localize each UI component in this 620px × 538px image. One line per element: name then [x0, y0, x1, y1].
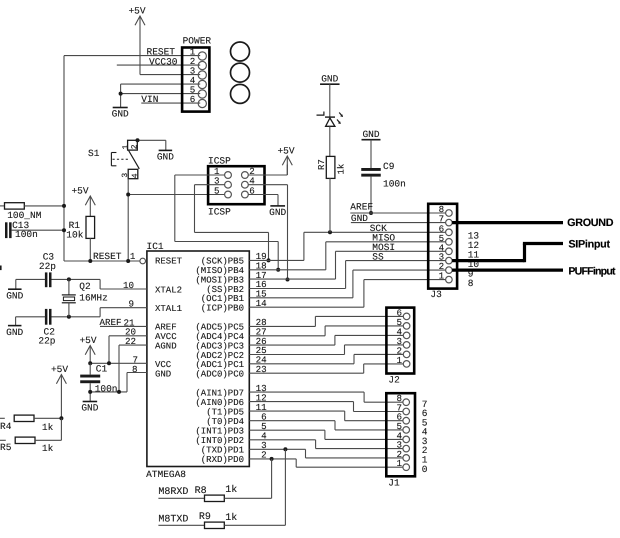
wire IC pin 27 to J2 pin 5 [249, 335, 325, 337]
junction MISO at IC pin18 [276, 268, 280, 272]
wire RESET net: POWER pin1 to left rail [64, 55, 200, 57]
IC IC1 ATMEGA8 box [147, 251, 249, 467]
svg-text:+5V: +5V [79, 335, 96, 346]
switch S1 top contact box [128, 140, 138, 150]
wire IC pin 2 to J1 pin 1 [249, 458, 296, 460]
junction R4/+5V [59, 416, 63, 420]
svg-text:(T1)PD5: (T1)PD5 [206, 407, 244, 417]
svg-text:M8RXD: M8RXD [158, 487, 188, 498]
wire 100_NM to RESET rail [24, 205, 64, 207]
svg-text:8: 8 [132, 364, 138, 375]
svg-text:GND: GND [269, 207, 286, 218]
wire SIPinput (thick) [452, 259, 524, 262]
mounting hole 3 [231, 84, 250, 103]
connector J2 box [386, 308, 414, 374]
svg-text:1k: 1k [42, 422, 54, 433]
wire R9 riser [284, 449, 286, 525]
ground symbol (S1) [159, 149, 173, 151]
svg-text:8: 8 [468, 278, 474, 289]
svg-text:VCC30: VCC30 [149, 56, 178, 67]
S1 bottom contact box [128, 169, 138, 178]
svg-text:1: 1 [439, 271, 445, 282]
junction S1/ICSP5 [126, 193, 130, 197]
resistor R1 body [86, 216, 95, 238]
connector J1 box [386, 393, 415, 476]
junction SCK at IC pin19 [267, 258, 271, 262]
wire IC pin18 to MISO run [249, 269, 325, 271]
junction R1/RESET [88, 259, 92, 263]
wire +5V to POWER pin 3 [140, 74, 200, 76]
wire IC pin 28 to J2 pin 6 [249, 325, 315, 327]
wire IC pin 24 to J2 pin 2 [249, 363, 354, 365]
resistor R9 body [205, 522, 225, 528]
LED light arrows [339, 113, 342, 117]
svg-text:1k: 1k [225, 512, 237, 524]
ground symbol (C1) [83, 401, 98, 403]
svg-text:PUFFinput: PUFFinput [568, 265, 616, 277]
ground symbol (POWER) [113, 107, 128, 109]
svg-text:ICSP: ICSP [208, 155, 231, 166]
resistor R4 left lead [0, 417, 5, 419]
wire GND to LED [329, 84, 331, 117]
svg-text:ATMEGA8: ATMEGA8 [146, 469, 186, 480]
junction S1 pin2 [136, 138, 140, 142]
wire POWER pin4 to GND [121, 83, 201, 85]
resistor R7 body [326, 156, 335, 178]
wire VCC30 to POWER pin2 [117, 64, 200, 66]
wire GND (pin8) row [127, 372, 147, 374]
wire GND label to J3 pin7 [351, 222, 446, 224]
svg-text:1k: 1k [42, 443, 54, 454]
svg-text:R7: R7 [317, 159, 327, 170]
wire ICSP pin1 (MISO) [175, 174, 225, 176]
ground symbol (C9, inverted) [362, 139, 381, 141]
svg-text:1: 1 [130, 251, 136, 262]
S1 lever [129, 151, 140, 169]
svg-text:(RXD)PD0: (RXD)PD0 [201, 455, 244, 465]
svg-text:(ICP)PB0: (ICP)PB0 [201, 304, 244, 314]
wire VIN to POWER pin6 [141, 102, 200, 104]
wire S1 pin2 to GND [138, 139, 166, 141]
svg-text:J3: J3 [430, 289, 442, 300]
wire R7 to SCK [329, 178, 331, 232]
svg-text:GND: GND [6, 327, 23, 338]
crystal Q2 [68, 279, 70, 295]
svg-text:GND: GND [362, 129, 379, 140]
wire XTAL2 (pin10) [100, 288, 147, 290]
wire POWER pin5 to GND rail [121, 93, 201, 95]
svg-text:RESET: RESET [93, 251, 122, 262]
svg-text:XTAL1: XTAL1 [155, 304, 182, 314]
junction C13/RESET rail [62, 228, 66, 232]
wire IC pin14 to J3 pin1 [249, 306, 364, 308]
svg-text:RESET: RESET [155, 257, 183, 267]
wire M8TXD to R9 [158, 524, 204, 526]
wire IC pin 25 to J2 pin 3 [249, 354, 344, 356]
svg-text:IC1: IC1 [147, 241, 164, 252]
svg-text:(ADC0)PC0: (ADC0)PC0 [195, 370, 244, 380]
wire R8 to riser [224, 497, 271, 499]
junction R7/SCK [328, 230, 332, 234]
svg-text:(INT0)PD2: (INT0)PD2 [195, 436, 244, 446]
wire VCC (pin7) row [90, 362, 147, 364]
junction +5V/C1 top [88, 361, 92, 365]
resistor R5 body [15, 437, 35, 443]
svg-text:1: 1 [121, 145, 130, 150]
svg-text:GND: GND [112, 109, 129, 120]
capacitor C9 plates [361, 168, 381, 171]
wire AGND (pin22) riser [119, 344, 147, 346]
left edge wire stub [0, 266, 2, 271]
wire C2 to GND [16, 316, 46, 318]
S1 actuator dashed link [113, 158, 129, 160]
svg-text:1k: 1k [225, 484, 237, 496]
junction AGND bottom [117, 390, 121, 394]
svg-text:GND: GND [321, 74, 338, 85]
junction crystal top [67, 277, 71, 281]
wire AREF (pin21) [100, 325, 147, 327]
wire GND to C9 [370, 140, 372, 168]
wire ICSP pin2 to +5V [248, 174, 287, 176]
wire C1 top lead [89, 363, 91, 374]
svg-text:SIPinput: SIPinput [568, 239, 610, 251]
mounting hole 1 [231, 42, 250, 61]
wire RESET row into IC pin 1 [64, 260, 140, 262]
svg-text:6: 6 [190, 94, 196, 105]
junction MOSI at IC pin17 [286, 278, 290, 282]
svg-text:16MHz: 16MHz [79, 293, 108, 304]
junction S1/RESET [126, 259, 130, 263]
svg-text:(AIN0)PD6: (AIN0)PD6 [195, 398, 244, 408]
svg-text:R5: R5 [0, 442, 12, 453]
resistor R8 body [205, 495, 225, 501]
LED cathode marker [317, 112, 324, 116]
wire +5V down to R5 [60, 418, 62, 440]
svg-text:+5V: +5V [277, 146, 294, 157]
wire AREF to J3 pin8 [350, 212, 445, 214]
wire IC pin 12 to J1 pin 7 [249, 401, 353, 403]
svg-text:Q2: Q2 [79, 281, 91, 292]
svg-text:0: 0 [422, 464, 428, 475]
wire MOSI run to J3 pin4 [336, 250, 446, 252]
svg-text:(TXD)PD1: (TXD)PD1 [201, 446, 244, 456]
wire S1 pin4 down to RESET rail [127, 179, 129, 261]
svg-text:GND: GND [155, 370, 171, 380]
svg-text:GND: GND [157, 152, 174, 163]
svg-text:VIN: VIN [141, 94, 158, 105]
svg-text:(INT1)PD3: (INT1)PD3 [195, 427, 244, 437]
junction R8 riser at IC pin2 [270, 457, 274, 461]
connector POWER box [182, 48, 209, 112]
capacitor C2 plates [45, 309, 48, 325]
svg-text:100n: 100n [95, 384, 118, 395]
wire C9 to AREF net [370, 177, 372, 213]
IC1 pin 1 inversion circle [140, 258, 146, 264]
wire R8 riser [271, 459, 273, 498]
svg-text:GROUND: GROUND [567, 217, 614, 229]
wire S1 junction to ICSP pin5 [128, 194, 225, 196]
S1 actuator bracket [110, 153, 112, 166]
wire IC pin 4 to J1 pin 3 [249, 439, 315, 441]
svg-text:(T0)PD4: (T0)PD4 [206, 417, 244, 427]
svg-text:GND: GND [6, 290, 23, 301]
svg-text:22p: 22p [38, 335, 55, 346]
wire IC pin15 to J3 pin2 [249, 297, 353, 299]
svg-text:AREF: AREF [350, 202, 373, 213]
wire IC pin 13 to J1 pin 8 [249, 391, 364, 393]
wire C3 to GND [16, 278, 45, 280]
wire SCK run to J3 pin6 [304, 231, 446, 233]
wire IC pin 26 to J2 pin 4 [249, 344, 335, 346]
wire GROUND (thick) [452, 221, 563, 224]
svg-text:M8TXD: M8TXD [158, 514, 188, 525]
svg-text:5: 5 [214, 185, 220, 196]
wire IC pin17 to MOSI run [249, 278, 335, 280]
connector ICSP box [208, 166, 264, 204]
ground symbol (C2) [8, 325, 22, 327]
connector J3 box [428, 204, 457, 289]
wire IC pin16 to SS run [249, 288, 345, 290]
resistor R5 left lead [0, 439, 6, 441]
wire PUFFinput (thick) [452, 269, 563, 272]
junction POWER pin5/GND [119, 92, 123, 96]
svg-text:R4: R4 [0, 421, 12, 432]
svg-text:1: 1 [396, 458, 402, 469]
svg-text:S1: S1 [88, 148, 100, 159]
wire IC pin 5 to J1 pin 4 [249, 429, 325, 431]
capacitor C1 plates [80, 375, 100, 378]
wire ICSP pin6 to GND [248, 194, 278, 196]
svg-text:100n: 100n [15, 229, 38, 240]
svg-text:J1: J1 [388, 478, 400, 489]
wire IC pin 6 to J1 pin 5 [249, 420, 335, 422]
wire ICSP pin4 (MOSI) down to IC pin17 [248, 184, 287, 186]
wire IC pin 3 to J1 pin 2 [249, 448, 305, 450]
wire R5 to +5V rail [35, 439, 61, 441]
wire IC pin19 to SCK run [249, 259, 304, 261]
LED symbol [325, 116, 335, 118]
svg-text:AGND: AGND [155, 341, 177, 351]
ground symbol (C3) [8, 288, 21, 290]
junction C1 bottom [88, 390, 92, 394]
capacitor C13 plates [5, 222, 8, 238]
svg-text:POWER: POWER [183, 36, 212, 47]
wire ICSP pin3 (SCK) [195, 184, 225, 186]
svg-text:(AIN1)PD7: (AIN1)PD7 [195, 388, 244, 398]
svg-text:2: 2 [130, 144, 139, 149]
svg-text:C9: C9 [383, 161, 395, 172]
wire C13 to RESET rail [12, 229, 64, 231]
svg-text:SS: SS [372, 252, 384, 263]
wire M8RXD to R8 [158, 497, 204, 499]
ground symbol (ICSP) [270, 205, 285, 207]
resistor R4 body [14, 415, 34, 421]
svg-text:+5V: +5V [51, 364, 68, 375]
resistor 100_NM left lead [0, 205, 5, 207]
wire R4 to +5V [34, 417, 62, 419]
ground symbol (LED, inverted) [320, 83, 340, 85]
svg-text:GND: GND [81, 403, 98, 414]
wire AVCC (pin20) riser to +5V rail [109, 335, 147, 337]
resistor 100_NM body [5, 203, 25, 209]
junction 100_NM/RESET rail [62, 204, 66, 208]
svg-text:10k: 10k [66, 230, 83, 241]
svg-text:22p: 22p [39, 261, 56, 272]
wire R1 bottom to RESET row [89, 238, 91, 261]
svg-text:1k: 1k [337, 164, 347, 175]
svg-text:1: 1 [396, 355, 402, 366]
svg-text:+5V: +5V [128, 6, 145, 17]
svg-text:J2: J2 [388, 374, 400, 385]
mounting hole 2 [231, 63, 250, 82]
junction C9/AREF [369, 211, 373, 215]
svg-text:XTAL2: XTAL2 [155, 285, 182, 295]
wire SS run to J3 pin3 [346, 260, 446, 262]
junction R9 riser at IC pin3 [283, 447, 287, 451]
junction AVCC riser [107, 361, 111, 365]
wire IC pin 23 to J2 pin 1 [249, 372, 363, 374]
junction crystal bottom [67, 315, 71, 319]
wire MISO run to J3 pin5 [326, 241, 446, 243]
wire RESET vertical rail [63, 56, 65, 261]
capacitor C3 plates [45, 272, 48, 287]
svg-text:3: 3 [121, 173, 130, 178]
svg-text:ICSP: ICSP [208, 207, 231, 218]
wire R9 to riser [224, 524, 285, 526]
wire C1 bottom lead [89, 383, 91, 401]
wire C1 bottom junction row [90, 391, 127, 393]
svg-text:AREF: AREF [100, 317, 122, 328]
svg-text:+5V: +5V [71, 186, 88, 197]
svg-text:4: 4 [131, 173, 140, 178]
wire XTAL1 (pin9) [100, 307, 147, 309]
wire LED to R7 [329, 126, 331, 156]
svg-text:100n: 100n [383, 178, 406, 189]
svg-text:C1: C1 [96, 363, 108, 374]
wire IC pin 11 to J1 pin 6 [249, 410, 344, 412]
